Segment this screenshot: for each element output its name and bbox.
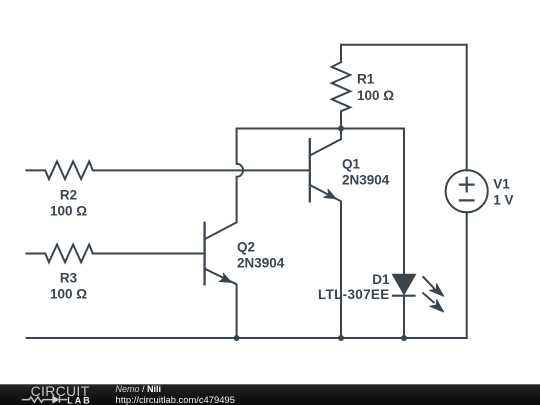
svg-text:2N3904: 2N3904 [237,256,285,271]
wire left vertical with hop over base wire [237,129,244,223]
node junction Q1 emitter on bottom rail [338,335,344,341]
resistor R1 [332,45,350,129]
transistor Q1 [310,129,341,339]
svg-text:LTL-307EE: LTL-307EE [318,287,389,302]
svg-text:Q1: Q1 [342,157,361,172]
svg-text:Q2: Q2 [237,240,255,255]
footer bar [0,384,540,405]
svg-text:2N3904: 2N3904 [342,173,390,188]
wire bottom rail [27,337,467,339]
svg-text:V1: V1 [493,177,510,192]
svg-text:R3: R3 [60,271,78,286]
svg-text:R2: R2 [60,188,77,203]
svg-text:100 Ω: 100 Ω [357,88,394,103]
node junction D1 cathode on bottom rail [401,335,407,341]
svg-text:1 V: 1 V [493,193,513,208]
svg-text:D1: D1 [372,272,390,287]
CircuitLab logo resistor-diode symbol [22,396,67,403]
svg-text:Nemo / Nili: Nemo / Nili [116,384,162,394]
wire top rail [341,44,467,46]
transistor Q2 [205,222,237,338]
svg-text:100 Ω: 100 Ω [50,204,87,219]
svg-text:R1: R1 [357,71,375,86]
resistor R2 [27,161,310,179]
svg-text:http://circuitlab.com/c479495: http://circuitlab.com/c479495 [116,394,235,405]
wire mid rail [237,128,404,130]
svg-text:LAB: LAB [67,395,92,405]
svg-text:100 Ω: 100 Ω [50,287,87,302]
LED D1 [392,129,444,339]
node junction at R1 / Q1 collector [338,126,344,132]
node junction Q2 emitter on bottom rail [234,335,240,341]
resistor R3 [27,245,205,263]
voltage source V1 [446,45,488,338]
